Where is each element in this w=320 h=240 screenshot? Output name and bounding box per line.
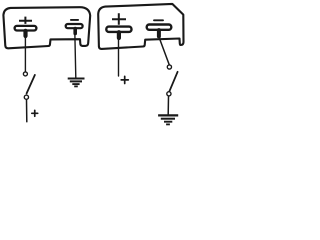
switch S1 blade	[27, 75, 35, 94]
switch S1 lower contact	[24, 95, 28, 99]
plus polarity label at S1 output	[32, 110, 38, 116]
wire from switch S1 output lead	[26, 100, 28, 122]
plus polarity label at B2 positive lead	[121, 76, 128, 83]
battery B1 case outline	[3, 7, 90, 48]
battery B2 positive terminal	[106, 27, 131, 32]
switch S2 upper contact	[167, 65, 171, 69]
battery B1 positive terminal stem	[23, 31, 27, 36]
battery B2 plus sign	[112, 13, 126, 25]
battery B1 positive terminal	[15, 26, 37, 31]
wire from B2 positive terminal open lead	[118, 36, 120, 76]
battery B2 negative terminal stem	[157, 30, 161, 36]
battery B2 positive terminal stem	[117, 32, 121, 38]
battery B1 negative terminal	[66, 24, 83, 28]
battery B2 negative terminal	[147, 25, 172, 30]
switch S2 lower contact	[167, 92, 171, 96]
battery B1 minus sign	[71, 19, 78, 21]
wire from switch S2 to ground	[167, 96, 169, 114]
ground G2	[158, 115, 178, 124]
wire from B2 negative terminal to switch S2	[160, 39, 170, 65]
battery B1 plus sign	[19, 17, 32, 24]
battery B2 case outline	[98, 4, 183, 49]
battery B1 negative terminal stem	[73, 29, 77, 34]
wire from B1 positive terminal to switch S1	[24, 34, 26, 72]
minus sign B2	[154, 19, 163, 21]
switch S2 blade	[169, 72, 177, 92]
ground G1	[68, 79, 85, 87]
switch S1 upper contact	[23, 72, 27, 76]
wire from B1 negative terminal to ground	[75, 31, 76, 78]
